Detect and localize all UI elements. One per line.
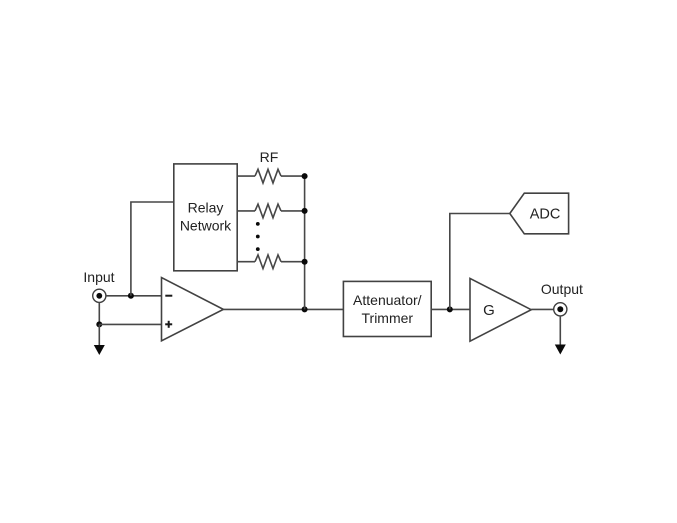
amplifier G xyxy=(470,278,531,341)
op-amp U1 xyxy=(162,278,224,341)
svg-text:Network: Network xyxy=(180,218,232,234)
junction feedback bus on output wire xyxy=(302,306,308,312)
op-amp non-inverting pin label xyxy=(165,321,172,328)
wire G output to output terminal xyxy=(531,308,554,310)
svg-text:Relay: Relay xyxy=(188,200,224,216)
op-amp inverting pin label xyxy=(165,295,172,297)
ground (input side) xyxy=(94,345,105,355)
wire tap up to ADC xyxy=(450,214,510,310)
ADC block xyxy=(510,193,569,234)
wire feedback bus vertical xyxy=(304,176,306,309)
Relay Network box xyxy=(174,164,237,271)
junction R3 xyxy=(302,259,308,265)
input terminal xyxy=(93,289,106,302)
resistor R3 xyxy=(255,255,281,269)
wire op-amp output to Attenuator/Trimmer xyxy=(223,308,343,310)
wire relay to resistor R2 xyxy=(237,210,255,212)
svg-text:Trimmer: Trimmer xyxy=(362,310,414,326)
svg-text:ADC: ADC xyxy=(530,207,561,223)
wire node down to ground xyxy=(98,324,100,345)
ground (output side) xyxy=(555,345,566,355)
junction R1 xyxy=(302,173,308,179)
wire junction up to Relay Network input xyxy=(131,202,174,296)
junction R2 xyxy=(302,208,308,214)
wire relay to resistor R1 xyxy=(237,175,255,177)
svg-text:Input: Input xyxy=(83,269,114,285)
svg-text:RF: RF xyxy=(260,149,279,165)
label RF xyxy=(260,149,279,165)
wire R1 to bus xyxy=(281,175,305,177)
svg-text:G: G xyxy=(483,302,495,319)
junction ADC tap xyxy=(447,306,453,312)
svg-text:Attenuator/: Attenuator/ xyxy=(353,292,422,308)
junction at non-inverting node xyxy=(96,321,102,327)
junction on inverting wire xyxy=(128,293,134,299)
wire R3 to bus xyxy=(281,261,305,263)
node Input label xyxy=(83,269,114,285)
output terminal xyxy=(554,303,567,316)
node Output label xyxy=(541,281,583,297)
wire attenuator to amplifier G xyxy=(431,308,470,310)
wire output terminal down to ground xyxy=(559,316,561,345)
ellipsis dots xyxy=(256,222,260,251)
resistor R2 xyxy=(255,204,281,218)
Attenuator/Trimmer box xyxy=(343,281,431,336)
wire R2 to bus xyxy=(281,210,305,212)
resistor R1 xyxy=(255,169,281,183)
svg-text:Output: Output xyxy=(541,281,583,297)
wire input to op-amp inverting input xyxy=(106,295,162,297)
wire node to op-amp non-inverting input xyxy=(99,323,161,325)
wire input terminal down to non-inverting node xyxy=(98,302,100,324)
wire relay to resistor R3 xyxy=(237,261,255,263)
